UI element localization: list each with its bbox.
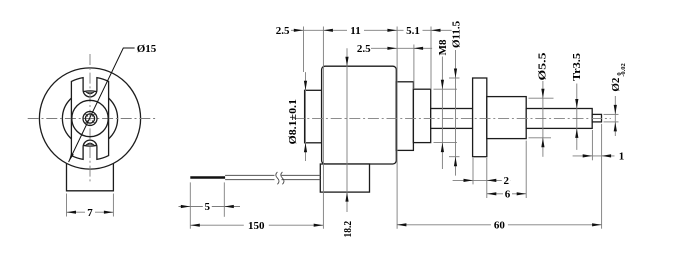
svg-text:11: 11	[350, 25, 360, 37]
svg-text:2: 2	[504, 175, 510, 187]
svg-text:Ø11.5: Ø11.5	[450, 20, 462, 48]
svg-text:1: 1	[619, 151, 625, 163]
svg-text:5: 5	[205, 201, 211, 213]
svg-text:Tr3.5: Tr3.5	[571, 52, 583, 81]
svg-text:6: 6	[505, 189, 511, 201]
svg-text:Ø2: Ø2	[610, 77, 622, 92]
svg-text:Ø8.1±0.1: Ø8.1±0.1	[287, 99, 299, 145]
svg-text:Ø15: Ø15	[137, 43, 157, 55]
svg-text:M8: M8	[437, 39, 449, 55]
svg-text:2.5: 2.5	[276, 25, 290, 37]
svg-text:7: 7	[87, 207, 93, 219]
svg-text:5.1: 5.1	[406, 25, 420, 37]
svg-text:150: 150	[248, 220, 265, 232]
svg-text:Ø5.5: Ø5.5	[537, 52, 549, 81]
svg-text:18.2: 18.2	[342, 221, 354, 238]
svg-text:2.5: 2.5	[357, 43, 371, 55]
svg-text:60: 60	[494, 220, 506, 232]
svg-text:-0.02: -0.02	[620, 63, 627, 77]
